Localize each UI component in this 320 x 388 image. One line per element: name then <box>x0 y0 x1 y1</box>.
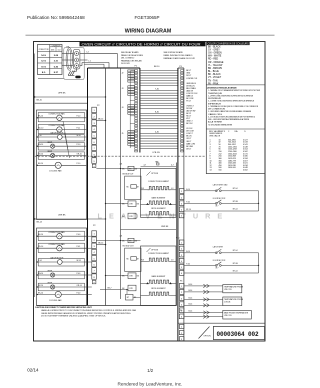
terminal block TB1 <box>73 49 80 69</box>
svg-text:OPTION: OPTION <box>151 249 159 251</box>
pointer line convection fan 1 <box>63 121 68 150</box>
svg-text:4-40: 4-40 <box>155 131 159 133</box>
wire BT-14 <box>184 272 258 274</box>
svg-text:LOW BK CLK: LOW BK CLK <box>186 78 198 80</box>
lamp LAMP <box>51 273 55 277</box>
wire RD-10 <box>37 129 57 131</box>
wire L1 to relay board <box>80 63 109 69</box>
temperature probe box 2 <box>223 297 244 306</box>
svg-text:DO NOT ATTEMPT REPAIRS UNLESS: DO NOT ATTEMPT REPAIRS UNLESS QUALIFIED.… <box>41 315 106 318</box>
svg-text:GY-14: GY-14 <box>38 285 43 287</box>
connector P3 display board <box>178 66 184 341</box>
wire L2 from table to terminal block <box>62 53 73 55</box>
wire BT-14 <box>184 190 258 192</box>
connector J2 bank <box>122 70 135 82</box>
wire BK-14 <box>37 294 56 296</box>
svg-text:FGET3065P: FGET3065P <box>135 15 160 20</box>
pin labels display board <box>186 70 198 150</box>
svg-text:P-40: P-40 <box>186 202 190 204</box>
svg-text:0.662: 0.662 <box>243 170 248 172</box>
blower relay box lower <box>127 257 140 261</box>
relay board enclosure left edge <box>87 68 89 306</box>
svg-text:B-14: B-14 <box>189 298 193 300</box>
blower enclosure lower <box>125 248 141 271</box>
svg-text:P0.8: P0.8 <box>141 188 144 190</box>
svg-text:W-14: W-14 <box>77 260 81 262</box>
svg-text:BK-14: BK-14 <box>37 221 43 223</box>
wire P-40 <box>61 294 86 296</box>
svg-text:4-8: 4-8 <box>120 236 123 238</box>
lamp LAMP <box>51 285 55 289</box>
svg-text:P-10: P-10 <box>77 163 81 165</box>
svg-text:1 - THERMAL CIRCUIT BREAKER/IN: 1 - THERMAL CIRCUIT BREAKER/INTERRUPTOR … <box>208 89 260 92</box>
caution note block <box>35 306 136 318</box>
svg-text:VT - VIOLET: VT - VIOLET <box>208 77 222 79</box>
svg-text:14: 14 <box>210 170 212 172</box>
svg-text:CONDUCTOR: CONDUCTOR <box>39 49 50 51</box>
svg-text:PANNEAU DES RELAIS: PANNEAU DES RELAIS <box>121 59 142 62</box>
wire RD-14 <box>37 247 57 249</box>
svg-text:8-40: 8-40 <box>155 111 159 113</box>
svg-text:P-10: P-10 <box>77 116 81 118</box>
Convection Fan enclosure <box>38 113 84 122</box>
svg-text:BN-14: BN-14 <box>38 273 43 275</box>
wire BT-1B <box>184 265 259 266</box>
diagram outer border <box>34 42 266 342</box>
svg-text:LAMP: LAMP <box>47 270 53 273</box>
option slash mark <box>199 327 212 339</box>
wire P-11 <box>62 129 86 131</box>
svg-text:B-14: B-14 <box>186 189 190 191</box>
svg-text:P10: P10 <box>176 238 179 240</box>
lamp LAMP <box>51 144 55 148</box>
svg-text:BT-14: BT-14 <box>186 209 191 211</box>
svg-text:LATCH MOTOR: LATCH MOTOR <box>50 257 64 260</box>
svg-text:BAKE ELEMENT: BAKE ELEMENT <box>152 275 167 278</box>
wire P-10 <box>62 117 86 119</box>
wire L2 to relay board <box>80 54 118 68</box>
svg-text:GY-10: GY-10 <box>38 153 43 155</box>
svg-text:B-14: B-14 <box>189 290 193 292</box>
svg-text:10 G: 10 G <box>41 66 46 68</box>
svg-text:LAMP: LAMP <box>47 141 53 144</box>
title bar OVEN CIRCUIT <box>80 41 206 46</box>
svg-text:CON 2B: CON 2B <box>224 302 231 304</box>
svg-text:LABEL ALL WIRES PRIOR TO DISCO: LABEL ALL WIRES PRIOR TO DISCONNECTION W… <box>41 309 136 312</box>
svg-text:COOLING FAN: COOLING FAN <box>49 170 62 173</box>
connector P10 upper bank <box>179 189 184 218</box>
wire Y-10 <box>37 136 58 138</box>
svg-text:CONVECTION FAN: CONVECTION FAN <box>48 112 65 115</box>
junction bus wire right LATCH MTR <box>258 253 260 273</box>
svg-text:TN - TAN: TN - TAN <box>208 79 218 82</box>
wire BT-1B <box>184 203 259 204</box>
svg-text:BT-14: BT-14 <box>233 188 238 190</box>
svg-text:OPTION: OPTION <box>204 336 212 338</box>
supply cord loop <box>66 48 72 71</box>
svg-text:B-14: B-14 <box>186 251 190 253</box>
Convection Fan enclosure <box>38 231 84 240</box>
color conversion header bar <box>207 41 250 45</box>
hi limit box upper <box>122 201 140 207</box>
Lamp enclosure <box>38 283 84 291</box>
wire LWR BK to display board <box>121 229 177 231</box>
blower enclosure upper <box>125 176 141 199</box>
wire hi limit lower <box>105 275 128 276</box>
svg-text:LPB GN: LPB GN <box>153 152 161 154</box>
ground wire <box>73 68 77 71</box>
svg-text:CAUTION-DISCONNECT POWER BEFOR: CAUTION-DISCONNECT POWER BEFORE SERVICIN… <box>35 306 92 309</box>
connector P6 bank <box>179 284 184 319</box>
option callout upper <box>147 172 159 176</box>
svg-text:BK BLW OUT: BK BLW OUT <box>123 173 135 175</box>
option callout lower <box>147 248 159 252</box>
svg-text:A LA TERRE: A LA TERRE <box>208 121 223 124</box>
svg-text:00003064 002: 00003064 002 <box>217 331 260 338</box>
svg-text:YL - YELLOW: YL - YELLOW <box>208 65 223 67</box>
temperature probe box 1 <box>223 285 244 293</box>
connector P1 relay board <box>135 66 140 153</box>
connector P10 lower bank <box>179 240 184 275</box>
switch LATCH MTR <box>215 249 221 253</box>
svg-text:B-14: B-14 <box>189 311 193 313</box>
svg-text:CONVECTION ELEMENT: CONVECTION ELEMENT <box>148 181 170 183</box>
wire P-40 <box>55 274 87 276</box>
heating element broil lower <box>141 292 177 295</box>
svg-text:1/2: 1/2 <box>147 368 153 373</box>
connector P2 upper <box>92 105 101 168</box>
svg-text:J2: J2 <box>122 72 124 74</box>
heating element convection upper <box>141 186 177 189</box>
svg-text:P6: P6 <box>180 281 182 283</box>
svg-text:W 7: W 7 <box>216 205 219 207</box>
svg-text:0.8: 0.8 <box>171 188 173 190</box>
svg-text:Rendered by LeadVenture, Inc.: Rendered by LeadVenture, Inc. <box>118 381 183 386</box>
wire BK-10 <box>37 164 56 166</box>
probe wire 5 <box>184 311 223 314</box>
bus wire N vertical <box>105 68 107 306</box>
svg-text:CONVECTION FAN: CONVECTION FAN <box>48 124 65 127</box>
svg-text:BL - BLUE: BL - BLUE <box>208 71 219 73</box>
svg-text:BK-10: BK-10 <box>154 66 159 68</box>
svg-text:BT-14: BT-14 <box>233 270 238 272</box>
svg-text:LPB CON: LPB CON <box>224 289 232 291</box>
svg-text:BK - BLACK: BK - BLACK <box>208 45 221 48</box>
motor LATCH MOTOR <box>57 260 62 265</box>
svg-text:LWR BK: LWR BK <box>58 215 66 217</box>
wire BK-14 <box>37 235 57 237</box>
svg-text:BK-7: BK-7 <box>108 287 112 289</box>
motor LATCH MOTOR <box>57 135 62 140</box>
heating element broil upper <box>141 212 177 215</box>
svg-text:P-40: P-40 <box>77 292 81 294</box>
svg-text:BAKE ELEMENT: BAKE ELEMENT <box>152 196 167 199</box>
Latch Motor enclosure <box>38 135 84 141</box>
svg-text:BK-14: BK-14 <box>98 243 103 245</box>
section divider dashed line <box>35 155 207 157</box>
svg-text:CONVERSION: CONVERSION <box>52 45 61 47</box>
svg-text:CABLE ORG: CABLE ORG <box>208 113 223 116</box>
wire P2 pin 3 to bus <box>96 120 106 121</box>
wire N from table to terminal block <box>62 59 73 61</box>
wire relay output upper <box>96 168 140 169</box>
heating element convection lower <box>141 258 177 261</box>
svg-text:Y-10: Y-10 <box>38 135 42 137</box>
switch DOOR MOTOR <box>215 200 221 204</box>
barcode area divider <box>178 322 265 324</box>
wire P-40 <box>62 235 86 237</box>
svg-text:LEGEND/LEYENDA/LEGENDE: LEGEND/LEYENDA/LEGENDE <box>207 86 237 89</box>
svg-text:RD BLW OUT: RD BLW OUT <box>123 245 135 247</box>
ground symbol <box>68 71 75 76</box>
wire P-41 <box>62 247 86 249</box>
relay board enclosure top edge <box>88 67 140 69</box>
svg-text:B-14: B-14 <box>189 304 193 306</box>
svg-text:UPR BK: UPR BK <box>58 93 66 95</box>
wire neutral branch <box>84 64 104 68</box>
wire relay output lower <box>96 240 140 241</box>
svg-text:550: 550 <box>219 170 222 172</box>
connector P11 bank <box>179 325 184 341</box>
probe wire 2 <box>184 290 223 293</box>
svg-text:CONVECTION FAN: CONVECTION FAN <box>48 243 65 246</box>
svg-text:BROIL ELEMENT: BROIL ELEMENT <box>151 288 166 290</box>
blower relay box upper <box>127 185 140 189</box>
lower element cavity box <box>141 246 177 306</box>
wires oven box to P2 lower <box>87 236 92 294</box>
neutral feed wire upper <box>35 102 88 104</box>
junction bus wire right LATCH MTR GND <box>258 191 260 211</box>
svg-text:BT: BT <box>137 187 139 189</box>
motor COOLING FAN <box>55 162 61 168</box>
connector J4 bank <box>122 105 135 115</box>
wire N to relay board <box>80 59 88 61</box>
svg-text:BT-1B: BT-1B <box>233 263 239 265</box>
Lamp enclosure <box>38 271 84 279</box>
svg-text:DOOR MOTOR: DOOR MOTOR <box>213 260 226 262</box>
svg-text:LATCH MTR: LATCH MTR <box>213 245 224 248</box>
svg-text:BK-14: BK-14 <box>38 292 43 294</box>
wire BT-14 <box>184 210 258 212</box>
supply cord enclosure <box>64 47 84 79</box>
svg-text:OVEN CIRCUIT // CIRCUITO DE HO: OVEN CIRCUIT // CIRCUITO DE HORNO // CIR… <box>82 42 202 46</box>
wire BT box to cavity <box>133 297 141 299</box>
probe wire 6 <box>184 315 223 318</box>
svg-text:7.6 GROUNDING/TIERRA/TERRE: 7.6 GROUNDING/TIERRA/TERRE <box>208 123 233 126</box>
bus wire L1 vertical <box>120 68 122 299</box>
upper element cavity box <box>141 168 177 217</box>
motor CONVECTION FAN <box>57 246 62 251</box>
wire P-10 <box>61 164 86 166</box>
lamp LAMP <box>51 153 55 157</box>
meat probe box <box>223 310 252 319</box>
svg-text:RD-10: RD-10 <box>38 127 43 129</box>
svg-text:OR-10: OR-10 <box>77 153 82 155</box>
svg-text:BK-10: BK-10 <box>37 99 42 101</box>
wire OR-10 <box>55 155 87 157</box>
thermal cutout box lower <box>122 285 136 291</box>
element cavity right edge <box>176 163 178 306</box>
svg-text:J3: J3 <box>122 88 124 90</box>
svg-text:RD - RED: RD - RED <box>208 59 219 61</box>
svg-text:1: 1 <box>181 327 182 329</box>
Lamp enclosure <box>38 143 84 150</box>
svg-text:LWR BK: LWR BK <box>161 226 169 228</box>
svg-text:J5: J5 <box>122 133 124 135</box>
lower oven feed wire <box>34 218 106 219</box>
wire hi limit upper <box>105 203 128 204</box>
wire BN-14 <box>37 274 50 276</box>
svg-text:LATCH MTR GND: LATCH MTR GND <box>213 183 228 186</box>
svg-text:4-8: 4-8 <box>120 164 123 166</box>
probe wire 3 <box>184 298 223 301</box>
legend divider <box>206 84 265 86</box>
svg-text:CAUSE IMPROPER AND DANGEROUS O: CAUSE IMPROPER AND DANGEROUS OPERATION. … <box>41 312 131 315</box>
wire Y-14 <box>37 261 58 263</box>
svg-text:mm2: mm2 <box>58 50 61 52</box>
wire gauge conversion table <box>38 45 63 75</box>
label P-0.8 / 0.8 upper convection <box>141 188 174 190</box>
svg-text:WH - WHITE: WH - WHITE <box>208 56 222 58</box>
svg-text:7-40: 7-40 <box>155 89 159 91</box>
svg-text:4 - TERMINAL BLOCK/BLOQUE DE C: 4 - TERMINAL BLOCK/BLOQUE DE CONEXION/BL… <box>208 105 258 108</box>
svg-text:BK - BLACK: BK - BLACK <box>208 73 221 76</box>
Latch Motor enclosure <box>38 259 84 266</box>
svg-text:PANEL INDICADOR DEL MANDO: PANEL INDICADOR DEL MANDO <box>164 54 193 57</box>
svg-text:GY - GREY: GY - GREY <box>208 49 220 51</box>
svg-text:Publication No: 5995642468: Publication No: 5995642468 <box>27 15 85 20</box>
svg-text:BT-14: BT-14 <box>233 208 238 210</box>
svg-text:BK CLK: BK CLK <box>186 123 193 125</box>
wire P2 lower pin 3 to bus <box>96 244 106 245</box>
svg-text:W-10: W-10 <box>77 135 81 137</box>
svg-text:DEL CONSEJO: DEL CONSEJO <box>121 58 135 60</box>
connector J3 bank <box>122 86 135 96</box>
label P-0.8 / 0.8 lower convection <box>141 260 174 262</box>
switch LATCH MTR GND <box>215 187 221 191</box>
BT box bottom <box>126 294 138 300</box>
wire from ground to oven chassis <box>38 78 64 80</box>
svg-text:CONVECTION ELEMENT: CONVECTION ELEMENT <box>148 253 170 255</box>
center bottom edge <box>37 305 177 307</box>
motor CONVECTION FAN <box>57 234 62 239</box>
svg-text:12 G: 12 G <box>41 61 46 63</box>
svg-text:3: 3 <box>181 339 182 341</box>
svg-text:DOOR MOTOR: DOOR MOTOR <box>213 198 226 200</box>
header rule <box>26 34 275 36</box>
lower oven component enclosure <box>37 228 87 306</box>
wire L1 from table to terminal block <box>62 65 73 67</box>
sensor resistance table rows <box>210 139 248 171</box>
legend box border <box>206 42 265 174</box>
bottom wire to BT box <box>100 289 128 295</box>
svg-text:4-7: 4-7 <box>171 165 174 167</box>
svg-text:SEE DISPLAY BOARD: SEE DISPLAY BOARD <box>164 51 184 54</box>
ribbon harness relay to display board <box>140 70 177 148</box>
svg-text:B-14: B-14 <box>189 284 193 286</box>
svg-text:5 - GROUNDED CABLE/TUBO FLEXIB: 5 - GROUNDED CABLE/TUBO FLEXIBLE/CABLE O… <box>208 110 252 113</box>
svg-text:P0.8: P0.8 <box>141 260 144 262</box>
svg-text:OR-14: OR-14 <box>77 285 82 287</box>
relay REC box upper <box>122 166 138 170</box>
hi limit box lower <box>122 273 140 279</box>
wire color list <box>208 45 224 85</box>
wire W-14 <box>62 261 86 263</box>
svg-text:BK-14: BK-14 <box>98 118 103 120</box>
label TAB upper cavity <box>155 160 159 165</box>
Convection Fan enclosure <box>38 243 84 252</box>
svg-text:Y-14: Y-14 <box>38 260 42 262</box>
svg-text:BK-14: BK-14 <box>38 234 43 236</box>
svg-text:6 - DOOR LATCH SWITCH/COMMUTAT: 6 - DOOR LATCH SWITCH/COMMUTATEUR DE POR… <box>208 115 255 118</box>
svg-text:02/14: 02/14 <box>27 367 39 372</box>
svg-text:WIRING DIAGRAM: WIRING DIAGRAM <box>125 29 172 35</box>
note SEE DISPLAY BOARD <box>164 51 196 60</box>
svg-text:BT-14: BT-14 <box>233 250 238 252</box>
svg-text:8 G: 8 G <box>42 72 46 74</box>
wires relay board internal <box>130 70 134 148</box>
motor CONVECTION FAN <box>57 115 62 120</box>
probe wire 4 <box>184 304 223 307</box>
wire OR-14 <box>55 286 87 288</box>
wire BK-10 <box>37 117 57 119</box>
svg-text:CONVECTION FAN: CONVECTION FAN <box>48 231 65 234</box>
svg-text:P-40: P-40 <box>186 264 190 266</box>
motor COOLING FAN <box>55 291 61 297</box>
wire BT-14 <box>184 252 258 254</box>
svg-text:P-40: P-40 <box>77 273 81 275</box>
svg-text:LAMP: LAMP <box>47 150 53 153</box>
svg-text:0.8: 0.8 <box>171 260 173 262</box>
svg-text:BT-1B: BT-1B <box>233 201 239 203</box>
wire GY-10 <box>37 155 50 157</box>
svg-text:BN - BROWN: BN - BROWN <box>208 68 222 70</box>
svg-text:2: 2 <box>181 333 182 335</box>
svg-text:4-7: 4-7 <box>144 165 147 167</box>
svg-text:OPTION: OPTION <box>151 173 159 175</box>
wire GY-14 <box>37 286 50 288</box>
connector P2 lower <box>92 225 97 284</box>
svg-text:P6: P6 <box>180 310 182 312</box>
probe wire 1 <box>184 284 223 287</box>
heating element bake upper <box>141 201 177 205</box>
svg-text:RD-14: RD-14 <box>38 246 43 248</box>
pointer line convection fan 2 <box>65 133 70 159</box>
svg-text:14 G: 14 G <box>41 54 46 57</box>
motor CONVECTION FAN <box>57 127 62 132</box>
svg-text:J4: J4 <box>122 107 124 109</box>
svg-text:BN-10: BN-10 <box>38 144 43 146</box>
switch DOOR MOTOR <box>215 262 221 266</box>
sensor resistance table header <box>209 130 246 138</box>
svg-text:LAMP: LAMP <box>47 282 53 285</box>
svg-text:BK-10: BK-10 <box>38 116 43 118</box>
svg-text:OR - ORANGE: OR - ORANGE <box>208 61 224 64</box>
svg-text:PANEL DE RELACIONES: PANEL DE RELACIONES <box>121 54 144 57</box>
svg-text:DU FOUR: DU FOUR <box>121 63 130 65</box>
wire P-10 <box>55 145 87 147</box>
svg-text:P-40: P-40 <box>77 234 81 236</box>
svg-text:P-10: P-10 <box>77 144 81 146</box>
svg-text:COLOR CONVERSION DE COULEURS: COLOR CONVERSION DE COULEURS <box>208 43 249 45</box>
label GND tag <box>75 76 80 79</box>
svg-text:BT: BT <box>137 259 139 261</box>
svg-text:BK-10: BK-10 <box>38 163 43 165</box>
svg-text:LATCH MOTOR: LATCH MOTOR <box>50 132 64 135</box>
note SEE RELAY BOARD <box>121 51 144 65</box>
svg-text:COOLING FAN: COOLING FAN <box>49 299 62 302</box>
thermal cutout box upper <box>122 213 136 219</box>
